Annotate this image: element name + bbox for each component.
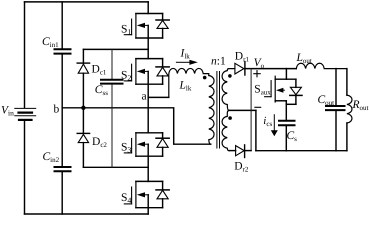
label minus (255, 106, 261, 108)
svg-text:Cin1: Cin1 (42, 36, 59, 49)
arrow ics (271, 115, 278, 137)
diode of Saux (290, 79, 302, 104)
switch S4 (124, 181, 162, 207)
capacitor Cin2 (55, 108, 71, 214)
svg-text:b: b (54, 104, 60, 116)
wire Vo node (245, 68, 296, 70)
wire right rail lower (346, 123, 348, 151)
node b wire to primary return (62, 108, 211, 144)
arrow Ilk (176, 60, 197, 65)
diode of S3 (156, 133, 169, 156)
wire clamp line lower (83, 166, 148, 168)
svg-text:a: a (142, 91, 147, 103)
wire S2 to node a to S3 (147, 84, 149, 133)
wire Dr2 output to Vo (250, 69, 252, 151)
switch S1 (124, 2, 162, 38)
svg-text:S2: S2 (121, 70, 131, 83)
label plus (254, 71, 260, 77)
svg-text:Rout: Rout (352, 99, 369, 112)
diode Dc1 (77, 49, 89, 107)
transformer primary winding (209, 76, 214, 145)
inductor Lout (296, 63, 347, 68)
wire S1-S2 link (147, 38, 149, 59)
dot primary winding (203, 76, 207, 80)
svg-text:Llk: Llk (179, 80, 192, 93)
svg-text:S1: S1 (121, 24, 131, 37)
dot secondary bottom (228, 116, 232, 120)
svg-text:Cin2: Cin2 (43, 151, 60, 164)
wire left rail lower (24, 121, 26, 214)
diode of S2 (156, 59, 169, 85)
wire top rail (25, 1, 149, 3)
svg-text:Css: Css (95, 84, 108, 97)
diode Dr1 (235, 62, 245, 75)
switch S2 (124, 59, 162, 85)
capacitor Css (101, 49, 123, 167)
svg-text:n:1: n:1 (211, 56, 226, 68)
transformer secondary top half (222, 69, 235, 111)
svg-text:Vo: Vo (254, 57, 265, 70)
svg-text:Dr1: Dr1 (235, 51, 250, 64)
source Vin battery (15, 108, 36, 120)
capacitor Cs (279, 121, 295, 151)
switch Saux (265, 69, 296, 102)
svg-text:S4: S4 (121, 192, 131, 205)
diode Dr2 (229, 145, 251, 158)
wire node a to Llk (148, 96, 169, 98)
svg-text:Dr2: Dr2 (234, 161, 249, 174)
transformer secondary bottom half (222, 110, 230, 150)
inductor Llk (169, 68, 209, 97)
wire right rail upper (346, 69, 348, 96)
wire bottom output rail (256, 150, 347, 152)
svg-text:Saux: Saux (254, 84, 271, 97)
wire S4 to bottom rail (147, 208, 149, 214)
wire clamp line upper (83, 48, 148, 50)
dot secondary top (228, 74, 232, 78)
transformer core (217, 72, 220, 149)
svg-text:ics: ics (263, 115, 272, 128)
wire Saux source to Cs (286, 101, 296, 120)
svg-text:Dc2: Dc2 (92, 136, 107, 149)
svg-text:Ilk: Ilk (180, 48, 191, 61)
switch S3 (124, 133, 162, 156)
capacitor Cout (326, 69, 345, 151)
diode of S1 (156, 14, 169, 39)
junction dot node b (81, 106, 85, 110)
diode of S4 (156, 181, 169, 207)
svg-text:Vin: Vin (1, 105, 14, 118)
svg-text:S3: S3 (121, 142, 131, 155)
svg-text:Cout: Cout (318, 94, 335, 107)
wire S3-S4 link (147, 156, 149, 181)
svg-text:Cs: Cs (287, 130, 298, 143)
wire bottom rail (25, 213, 149, 215)
diode Dc2 (77, 108, 89, 168)
resistor Rout (347, 95, 352, 123)
wire center tap (229, 109, 256, 111)
capacitor Cin1 (55, 2, 71, 108)
svg-text:Lout: Lout (296, 52, 312, 65)
wire left rail upper (24, 2, 26, 108)
wire tap down to output return (255, 110, 257, 150)
svg-text:Dc1: Dc1 (92, 63, 107, 76)
